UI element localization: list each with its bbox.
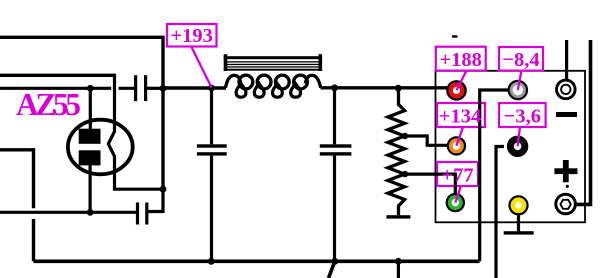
node bottom rail stub bbox=[395, 258, 402, 265]
pointer +193 bbox=[191, 46, 212, 88]
label text AZ55 bbox=[16, 87, 81, 122]
terminal post orange +134 bbox=[448, 137, 465, 154]
capacitor C4 lead top bbox=[333, 88, 336, 145]
pointer +77 bbox=[455, 186, 461, 203]
svg-text:−3,6: −3,6 bbox=[504, 106, 541, 128]
wire tap2 to green post (crosses +77 label) bbox=[405, 174, 455, 194]
label text +193 bbox=[170, 25, 212, 47]
label box -8,4 bbox=[499, 47, 543, 71]
label box +134 bbox=[437, 103, 485, 127]
ground stub under yellow post bbox=[504, 213, 534, 235]
capacitor C4 plates bbox=[320, 144, 352, 155]
terminal post green +77 bbox=[447, 194, 464, 211]
label box -3,6 bbox=[499, 103, 546, 127]
node filament-junction bbox=[160, 186, 167, 193]
binding nut bottom bbox=[556, 194, 576, 214]
terminal post red +188 bbox=[447, 81, 465, 99]
wire main rail junction to choke bbox=[163, 86, 226, 89]
binding nut top bbox=[557, 80, 576, 99]
wire fifth input to bottom capacitor (hop gap at vertical) bbox=[0, 211, 136, 214]
tube V1 envelope bbox=[68, 120, 133, 175]
pointer +188 bbox=[457, 71, 467, 91]
svg-text:+77: +77 bbox=[441, 165, 473, 187]
capacitor C3 lead bottom bbox=[210, 156, 213, 262]
wire third input to capacitor C1 (with hop gap at filament wire) bbox=[0, 87, 135, 90]
svg-text:+193: +193 bbox=[170, 25, 212, 47]
svg-text:−8,4: −8,4 bbox=[502, 49, 539, 71]
minus sign bbox=[556, 112, 577, 117]
label text -8,4 bbox=[502, 49, 539, 71]
wire stub going off bottom edge bbox=[397, 261, 400, 278]
wire top nut feed bbox=[565, 40, 568, 80]
capacitor C4 lead bottom bbox=[333, 156, 336, 262]
svg-text:+134: +134 bbox=[439, 106, 481, 128]
tube V1 filament lead and heater bbox=[108, 74, 163, 190]
wire anode drop from node A into tube bbox=[89, 88, 92, 130]
terminal post yellow bbox=[510, 196, 528, 214]
resistor R1 bottom end bar bbox=[386, 215, 410, 218]
tube V1 anode plate upper bbox=[79, 129, 101, 144]
node C3 top bbox=[331, 84, 338, 91]
wire diagonal going off bottom edge bbox=[329, 261, 335, 278]
label text +77 bbox=[441, 165, 473, 187]
pointer -8,4 bbox=[518, 71, 522, 91]
node +193 bbox=[208, 85, 215, 92]
node bottom rail C3 bbox=[208, 258, 215, 265]
artifact dot above bottom nut bbox=[566, 185, 569, 188]
capacitor C3 plates bbox=[197, 144, 227, 155]
svg-text:AZ55: AZ55 bbox=[16, 87, 81, 122]
wire right side to bottom nut bbox=[576, 40, 591, 204]
tube V1 anode plate lower bbox=[79, 150, 101, 165]
pointer +134 bbox=[456, 127, 463, 146]
terminal post black -3,6 bbox=[508, 137, 527, 156]
node main junction bbox=[160, 85, 167, 92]
plus sign bbox=[554, 160, 577, 182]
capacitor C1 left plate bbox=[134, 75, 137, 101]
wire choke to terminal board red post bbox=[321, 86, 448, 89]
wire bottom rail bbox=[34, 259, 480, 263]
label box +188 bbox=[436, 47, 486, 71]
node tap2 on R1 bbox=[402, 171, 408, 177]
wire gray post to bottom rail bbox=[480, 90, 508, 261]
wire C2 right plate up to filament node bbox=[148, 189, 163, 211]
capacitor C3 lead top bbox=[210, 88, 213, 144]
wire second AC input bbox=[0, 74, 115, 77]
node A bbox=[87, 85, 94, 92]
wire C1 right plate to junction bbox=[147, 87, 163, 90]
node resistor top bbox=[395, 85, 402, 92]
label text +134 bbox=[439, 106, 481, 128]
resistor R1 bleeder bbox=[388, 88, 405, 215]
label box +77 bbox=[437, 162, 478, 186]
label box +193 bbox=[167, 24, 217, 47]
wire fourth input (left) to bottom rail corner bbox=[0, 150, 34, 261]
choke L1 iron core bbox=[224, 54, 322, 71]
wire lower anode to bottom node bbox=[88, 165, 91, 212]
capacitor C1 right plate bbox=[144, 75, 147, 101]
svg-text:+188: +188 bbox=[439, 49, 481, 71]
choke L1 winding bbox=[226, 75, 321, 97]
capacitor C2 bottom left plate bbox=[136, 203, 139, 225]
terminal board panel bbox=[436, 71, 586, 223]
node tube bottom bbox=[87, 209, 94, 216]
label text -3,6 bbox=[504, 106, 541, 128]
artifact dash top bbox=[452, 35, 458, 37]
node bottom rail C4 bbox=[331, 258, 338, 265]
wire black post down off bottom edge bbox=[496, 147, 504, 278]
node tap1 on R1 bbox=[402, 133, 408, 139]
wire vertical from top wire down through junction to filament node bbox=[161, 36, 164, 190]
wire tap1 to orange post bbox=[405, 136, 448, 145]
wire top AC input bbox=[0, 36, 163, 39]
pointer -3,6 bbox=[518, 127, 520, 146]
terminal post gray -8,4 bbox=[509, 81, 527, 99]
label text +188 bbox=[439, 49, 481, 71]
capacitor C2 bottom right plate bbox=[145, 203, 148, 225]
